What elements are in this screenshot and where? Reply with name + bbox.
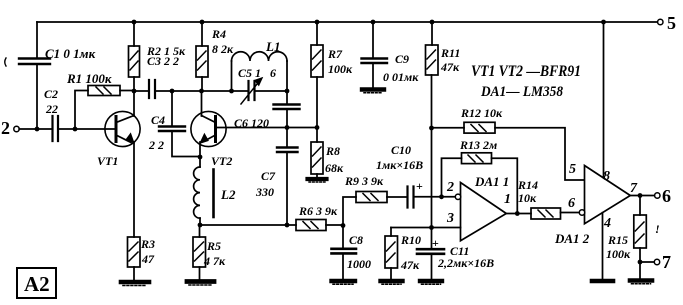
svg-text:DA1— LM358: DA1— LM358 (480, 84, 563, 100)
ground under R10 (381, 279, 403, 283)
ground under R8 (316, 174, 318, 177)
node rail C9 (371, 20, 376, 25)
wire C2 to VT1 base (58, 128, 114, 130)
capacitor C5 trimmer (249, 81, 255, 100)
resistor R6 (296, 220, 326, 231)
node L1 left (229, 89, 234, 94)
wire R4 bottom stub (201, 77, 203, 91)
terminal 5 (658, 19, 663, 24)
svg-text:R13 2м: R13 2м (459, 138, 497, 152)
resistor R14 (531, 208, 561, 219)
wire R10 top leg (390, 228, 392, 237)
wire L2 tap to R6 (200, 224, 296, 226)
node R12 left (429, 126, 434, 131)
wire output DA1.1 (506, 213, 531, 215)
svg-text:R11: R11 (440, 46, 460, 60)
node output DA1.1 (515, 211, 520, 216)
capacitor C9 (372, 22, 374, 58)
capacitor C4 (171, 91, 173, 126)
inductor L2 (199, 157, 201, 167)
wire L2 node to R5 (199, 225, 201, 237)
svg-text:8 2к: 8 2к (212, 42, 234, 56)
wire R3 bottom (133, 267, 135, 280)
node L1 right (285, 89, 290, 94)
node R7 R8 base divider (315, 125, 320, 130)
svg-text:C10: C10 (391, 143, 411, 157)
svg-text:R12 10к: R12 10к (460, 106, 503, 120)
wire C3 left (136, 90, 148, 92)
terminal 2 (14, 126, 19, 131)
node rail pin8 (601, 20, 606, 25)
svg-text:L2: L2 (220, 187, 236, 202)
resistor R5 (193, 237, 206, 267)
resistor R8 (311, 142, 323, 174)
svg-text:R5: R5 (206, 239, 221, 253)
svg-text:C1 0 1мк: C1 0 1мк (45, 46, 96, 61)
transistor VT2 (191, 111, 226, 146)
wire R15 top leg (639, 196, 641, 216)
svg-text:C8: C8 (349, 233, 363, 247)
svg-text:0 01мк: 0 01мк (383, 70, 419, 84)
svg-text:2,2мк×16В: 2,2мк×16В (437, 256, 494, 270)
wire top supply rail (37, 21, 660, 23)
wire R10 bottom (390, 268, 392, 279)
wire node to R4 node (172, 90, 202, 92)
node C6 C7 base (285, 125, 290, 130)
resistor R7 (311, 45, 323, 77)
svg-text:6: 6 (568, 196, 575, 211)
wire VT1 emitter to R3 (133, 142, 135, 237)
svg-text:R15: R15 (607, 233, 628, 247)
node C4 top (170, 89, 175, 94)
wire collector node to tank (202, 90, 249, 92)
op-amp DA1.1 (461, 183, 507, 241)
resistor R3 (128, 237, 141, 267)
svg-text:6: 6 (270, 66, 276, 80)
wire output DA1.2 (630, 195, 654, 197)
node R6 C8 R9 (341, 223, 346, 228)
svg-text:R3: R3 (140, 237, 155, 251)
svg-text:330: 330 (255, 185, 274, 199)
ground under R15 (630, 278, 652, 283)
resistor R9 (356, 192, 387, 203)
node rail R2 (132, 20, 137, 25)
wire R15 ground stub (639, 262, 641, 278)
wire R5 bottom (199, 267, 201, 279)
wire R9 right (387, 196, 406, 198)
inductor L1 (232, 61, 288, 91)
resistor R2 (129, 46, 140, 77)
node rail R7 (315, 20, 320, 25)
wire VT1 collector vertical (133, 91, 135, 116)
ground under R3 (121, 280, 149, 285)
wire R12 left leg (432, 127, 465, 129)
svg-text:1мк×16В: 1мк×16В (376, 158, 423, 172)
wire VT2 collector vertical (201, 91, 203, 116)
block label A2 (17, 268, 56, 298)
wire R1 right (120, 90, 134, 92)
wire pin3 (391, 227, 461, 229)
node collector VT1 (132, 89, 137, 94)
terminal 6 (655, 193, 660, 198)
node base VT1 (73, 127, 78, 132)
svg-text:DA1 2: DA1 2 (554, 231, 590, 246)
wire pin8 supply (603, 22, 605, 178)
svg-text:DA1 1: DA1 1 (474, 174, 509, 189)
wire C3 right (156, 90, 172, 92)
wire R12 right to pin5 (495, 128, 584, 180)
artifact mark left (5, 58, 6, 66)
wire R13 right to output (492, 158, 518, 213)
node rail R4 (200, 20, 205, 25)
svg-text:C4: C4 (151, 113, 165, 127)
wire R2 bottom stub (133, 77, 135, 91)
svg-text:C6 120: C6 120 (234, 116, 269, 130)
svg-text:68к: 68к (325, 161, 344, 175)
wire C10 to pin2 (414, 196, 456, 198)
svg-text:R7: R7 (327, 47, 343, 61)
wire R11 top stub (431, 22, 433, 45)
node C7 bottom (285, 223, 290, 228)
svg-text:5: 5 (667, 13, 676, 33)
ground under pin4 (592, 279, 613, 284)
svg-text:C9: C9 (395, 52, 409, 66)
resistor R13 (462, 153, 492, 164)
svg-text:VT1 VT2 —BFR91: VT1 VT2 —BFR91 (471, 63, 581, 80)
svg-text:L1: L1 (265, 39, 280, 54)
wire R4 top stub (201, 22, 203, 46)
node R15 ground terminal (638, 260, 643, 265)
node emitter VT2 (198, 155, 203, 160)
svg-text:2 2: 2 2 (148, 138, 164, 152)
wire VT2 emitter down (199, 142, 201, 157)
node bias pin3 (429, 225, 434, 230)
svg-text:100к: 100к (328, 62, 353, 76)
svg-text:R1 100к: R1 100к (66, 71, 112, 86)
node L2 bottom (198, 223, 203, 228)
svg-text:R4: R4 (211, 27, 226, 41)
wire to terminal 7 (640, 261, 654, 263)
svg-text:C5 1: C5 1 (238, 66, 261, 80)
svg-text:22: 22 (45, 102, 58, 116)
svg-text:R14: R14 (517, 178, 538, 192)
svg-text:VT1: VT1 (97, 154, 118, 168)
capacitor C8 (342, 226, 344, 249)
resistor R11 (426, 45, 439, 75)
svg-text:6: 6 (662, 186, 671, 206)
svg-text:7: 7 (630, 181, 638, 196)
capacitor C6 (286, 91, 288, 104)
svg-text:+: + (432, 236, 439, 250)
capacitor C1 (19, 59, 50, 65)
svg-text:8: 8 (603, 169, 610, 184)
node rail R11 (430, 20, 435, 25)
wire C4 bottom to emitter node (172, 131, 200, 157)
svg-text:10к: 10к (518, 191, 537, 205)
capacitor C7 (286, 128, 288, 148)
wire bias line R11 down (431, 75, 433, 228)
wire R9 left leg (343, 197, 356, 226)
wire R15 bottom (639, 248, 641, 262)
node input/C1 (35, 127, 40, 132)
wire pin4 to ground (602, 213, 604, 279)
wire input (19, 128, 51, 130)
resistor R4 (196, 46, 208, 77)
wire R6 right (326, 224, 343, 226)
resistor R12 (464, 122, 495, 133)
wire R13 left leg (442, 158, 462, 195)
wire R1 left leg (75, 91, 88, 130)
svg-text:C7: C7 (261, 169, 276, 183)
ground under R5 (187, 279, 214, 284)
svg-text:1000: 1000 (347, 257, 371, 271)
svg-text:1: 1 (504, 192, 511, 207)
wire C1 branch vertical (36, 22, 38, 129)
op-amp DA1.2 (585, 166, 631, 224)
node R13 leg on pin2 wire (439, 194, 444, 199)
svg-text:47к: 47к (400, 258, 420, 272)
svg-text:A2: A2 (24, 272, 50, 296)
terminal 7 (654, 259, 659, 264)
svg-text:R6 3 9к: R6 3 9к (298, 204, 338, 218)
ground under C9 (362, 87, 384, 91)
ground under C11 (420, 279, 442, 283)
wire VT2 base (217, 127, 317, 129)
capacitor C11 (431, 228, 433, 249)
svg-text:2: 2 (446, 180, 454, 195)
svg-text:R10: R10 (400, 233, 421, 247)
node output DA1.2 (638, 193, 643, 198)
svg-text:R9 3 9к: R9 3 9к (344, 174, 384, 188)
wire R14 right to pin6 (561, 212, 581, 214)
capacitor C3 (149, 80, 155, 98)
node collector VT2 (199, 89, 204, 94)
svg-text:2: 2 (1, 118, 10, 138)
ground under C8 (332, 279, 356, 283)
svg-text:100к: 100к (606, 247, 631, 261)
svg-text:C2: C2 (44, 87, 58, 101)
wire R7 top stub (316, 22, 318, 45)
svg-text:3: 3 (446, 211, 454, 226)
svg-text:5: 5 (569, 162, 576, 177)
capacitor C10 (408, 187, 414, 208)
svg-text:C3 2 2: C3 2 2 (147, 54, 179, 68)
svg-text:R8: R8 (325, 144, 340, 158)
svg-text:47: 47 (141, 252, 155, 266)
svg-text:4: 4 (603, 216, 611, 231)
wire R7 bottom (316, 77, 318, 142)
capacitor C2 (53, 116, 59, 141)
svg-text:+: + (416, 179, 423, 193)
svg-text:4 7к: 4 7к (203, 254, 226, 268)
svg-text:47к: 47к (440, 60, 460, 74)
wire R2 top stub (133, 22, 135, 46)
transistor VT1 (105, 111, 140, 146)
resistor R15 (634, 215, 647, 248)
resistor R1 (88, 86, 120, 96)
resistor R10 (385, 236, 398, 268)
svg-text:!: ! (655, 222, 660, 236)
svg-text:7: 7 (662, 252, 671, 272)
svg-text:VT2: VT2 (211, 154, 232, 168)
